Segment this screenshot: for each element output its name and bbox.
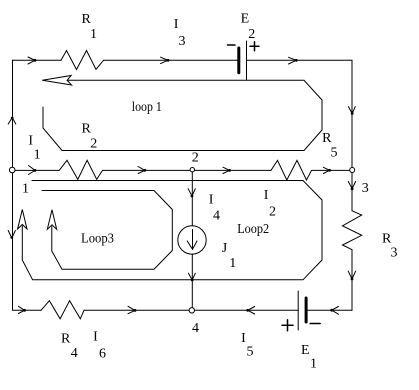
wire: J1 branch lower: [191, 254, 193, 310]
arrow down on right wire: [348, 107, 355, 114]
sign minus of E2: [228, 44, 236, 46]
svg-text:R: R: [382, 232, 392, 247]
svg-text:R: R: [82, 122, 92, 137]
svg-text:Loop3: Loop3: [81, 231, 114, 246]
current source J1 inner arrow: [192, 230, 194, 250]
tip dot on I5 arrow: [246, 309, 249, 312]
tip dot on R3 down arrow: [351, 278, 354, 281]
svg-text:3: 3: [179, 34, 186, 49]
arrow right on bottom wire near corner: [18, 306, 24, 313]
svg-text:Loop2: Loop2: [237, 222, 269, 237]
svg-text:I: I: [28, 133, 33, 148]
arrow I5 left on bottom wire: [248, 307, 255, 315]
svg-text:1: 1: [229, 256, 236, 271]
wire: right branch lower: [351, 250, 353, 311]
tip dot on middle wire mid arrow: [143, 169, 146, 172]
arrow right on middle wire before R5: [223, 167, 230, 173]
tip dot on middle arrow: [34, 169, 37, 172]
wire: middle branch R2 to node 2: [103, 169, 193, 171]
wire: top branch left segment: [13, 59, 62, 61]
svg-text:I: I: [241, 331, 246, 346]
arrow down below node 3: [348, 182, 355, 189]
svg-text:E: E: [301, 343, 310, 358]
svg-text:R: R: [61, 332, 71, 347]
svg-text:loop 1: loop 1: [132, 100, 162, 115]
loop 2 outline: [22, 181, 322, 280]
svg-text:E: E: [241, 12, 250, 27]
tip dot on bottom left arrow: [23, 309, 26, 312]
arrow right on middle wire near node 1: [29, 166, 36, 175]
loop 1 outline: [43, 80, 322, 150]
arrow on top wire after E2: [289, 57, 297, 64]
svg-text:I: I: [93, 330, 98, 345]
tip dot on arrow after R5: [328, 169, 331, 172]
svg-text:5: 5: [331, 146, 338, 161]
loop 3 outline: [42, 191, 172, 270]
battery E2 positive plate: [246, 41, 248, 80]
svg-text:4: 4: [192, 321, 199, 336]
battery E2 negative plate: [237, 48, 240, 73]
svg-text:2: 2: [192, 151, 199, 166]
sign plus of E1: [282, 320, 293, 331]
sign minus of E1: [310, 323, 320, 325]
wire: J1 branch upper: [191, 170, 193, 226]
tip dot on arrow after E2: [295, 59, 298, 62]
arrow right on middle wire after R2: [138, 167, 145, 174]
arrow down on J1 branch upper: [188, 189, 195, 196]
svg-text:6: 6: [99, 347, 106, 362]
arrow down on left wire: [8, 231, 15, 239]
tip dot on right wire down arrow: [351, 112, 354, 115]
battery E1 negative plate: [305, 298, 308, 322]
svg-text:I: I: [209, 193, 214, 208]
arrow down below R3: [348, 271, 355, 279]
node 4: [189, 308, 194, 313]
tip dot on bottom mid arrow: [134, 309, 137, 312]
node 2: [190, 168, 194, 172]
svg-text:2: 2: [248, 27, 255, 42]
resistor R3: [343, 211, 362, 250]
tip dot on I3 arrow: [167, 59, 170, 62]
wire: outer left branch: [12, 60, 14, 310]
battery E1 positive plate: [297, 291, 299, 330]
resistor R1: [61, 51, 104, 70]
svg-text:2: 2: [269, 205, 276, 220]
tip dot on J1 upper arrow: [191, 195, 194, 198]
resistor R4: [41, 301, 84, 319]
arrow right on middle wire after R5: [323, 167, 329, 173]
wire: bottom branch middle segment: [84, 309, 298, 311]
tip dot on node3 down arrow: [351, 187, 354, 190]
current source J1 circle: [178, 226, 206, 254]
resistor R2: [59, 160, 102, 179]
svg-text:J: J: [222, 241, 228, 256]
svg-text:I: I: [174, 17, 179, 32]
wire: top branch middle segment: [104, 59, 238, 61]
wire: top branch right segment: [247, 59, 353, 61]
wire: middle branch node 2 to R5: [192, 169, 271, 171]
wire: right branch from node 3 to R3: [351, 170, 353, 210]
sign plus of E2: [250, 42, 259, 51]
arrow down on J1 branch lower: [188, 273, 195, 280]
svg-text:4: 4: [213, 209, 220, 224]
loop 2 arrowhead: [18, 210, 27, 230]
svg-text:1: 1: [34, 148, 41, 163]
svg-text:I: I: [264, 188, 269, 203]
svg-text:3: 3: [391, 246, 398, 261]
arrow right on bottom wire after R4: [128, 306, 135, 313]
tip dot on left up arrow: [11, 117, 14, 120]
svg-text:1: 1: [310, 357, 317, 372]
node 1: [9, 167, 15, 173]
node 3: [350, 168, 355, 173]
tip dot on J1 lower arrow: [191, 279, 194, 282]
tip dot on left wire down arrow: [10, 236, 13, 239]
svg-text:4: 4: [71, 346, 78, 361]
loop 3 arrowhead: [47, 210, 56, 230]
wire: bottom branch right segment: [306, 309, 352, 311]
arrow left on bottom wire near E1: [332, 307, 339, 315]
resistor R5: [271, 160, 312, 180]
svg-text:R: R: [82, 12, 92, 27]
tip dot on top arrow: [34, 59, 37, 62]
wire: middle branch node1 to R2: [13, 169, 60, 171]
svg-text:5: 5: [247, 345, 254, 360]
loop 1 arrowhead: [42, 76, 71, 86]
wire: right branch upper (to node 3): [351, 60, 353, 170]
svg-text:R: R: [322, 131, 332, 146]
tip dot on arrow near E1: [330, 309, 333, 312]
tip dot on arrow before R5: [228, 169, 231, 172]
arrow I1 up on left wire: [8, 118, 16, 125]
svg-text:1: 1: [90, 27, 97, 42]
wire: middle branch R5 to node 3: [312, 169, 353, 171]
arrow I3 on top wire: [161, 57, 169, 63]
wire: bottom branch left segment: [13, 309, 42, 311]
svg-text:2: 2: [90, 137, 97, 152]
arrow on top wire near corner: [28, 57, 35, 64]
svg-text:1: 1: [22, 182, 29, 197]
svg-text:3: 3: [362, 181, 369, 196]
